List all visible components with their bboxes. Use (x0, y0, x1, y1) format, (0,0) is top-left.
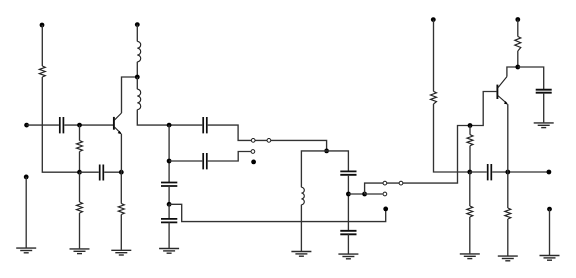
node B rail-left dot (77, 170, 82, 175)
connector J2 pin (251, 150, 255, 154)
resistor R1 (39, 66, 45, 77)
wire R3 to ground (79, 213, 81, 248)
wire C1 to Q1 base (64, 124, 113, 126)
wire VCC3 to R5 (433, 20, 435, 92)
wire R6 to node K (469, 146, 471, 172)
capacitor C9 (536, 90, 552, 93)
node output port terminal dot (547, 170, 552, 175)
ground under L3 (291, 252, 311, 257)
wire node N to C9 (518, 67, 544, 89)
wire node K to R7 (469, 172, 471, 206)
capacitor C2 (100, 165, 104, 181)
connector J1 pin 1 (251, 139, 255, 143)
wire L1 to tap node (136, 62, 138, 77)
wire R7 to ground (469, 217, 471, 253)
wire node M to R9 (507, 172, 509, 208)
node A base node dot (77, 123, 82, 128)
wire R1 down to bias rail then right (42, 77, 79, 172)
node I dot (346, 192, 351, 197)
node input ground terminal (24, 175, 29, 180)
resistor R4 (118, 204, 124, 215)
inductor L2 (137, 89, 140, 109)
wire node I to node J (348, 193, 364, 195)
resistor R9 (505, 208, 511, 219)
node D inductor tap dot (135, 75, 140, 80)
wire C8 to ground (347, 234, 349, 253)
wire node H right to C7 (327, 151, 349, 171)
node VCC3 top supply dot (431, 17, 436, 22)
wire node C down to R4 (120, 172, 122, 203)
capacitor C5 (161, 183, 177, 187)
wire Q2 collector to node N (507, 67, 518, 77)
wire VCC1 to R1 (41, 25, 43, 66)
node C emitter node dot (119, 170, 124, 175)
ground output port (540, 256, 560, 261)
wire C9 to ground (543, 93, 545, 123)
wire tap to L2 (136, 77, 138, 89)
wire node F to C4 (169, 160, 202, 162)
transistor Q1 (114, 113, 122, 134)
wire C3 right then down to jack row (208, 125, 252, 140)
resistor R7 (467, 206, 473, 217)
connector J4 pin (383, 192, 387, 196)
ground under R9 (498, 256, 518, 261)
node output ground terminal dot (547, 207, 552, 212)
capacitor C10 (488, 164, 492, 180)
resistor R3 (77, 202, 83, 213)
capacitor C1 (60, 117, 64, 133)
node VCC2 top supply dot (135, 22, 140, 27)
wire through connector pair J1 (251, 140, 326, 151)
wire node H left to L3 (301, 151, 326, 187)
wire Q1 collector up to inductor tap (122, 77, 138, 113)
wire R5 down then right to node K (434, 104, 470, 172)
wire C2 to emitter node (104, 171, 121, 173)
transistor Q2 (497, 77, 508, 105)
connector J1 pin 2 (267, 139, 271, 143)
ground under R3 (70, 249, 90, 254)
wire C5 to node G (168, 186, 170, 204)
node N collector node dot (515, 65, 520, 70)
wire C6 to ground (168, 222, 170, 248)
ground input port (16, 248, 36, 253)
node F divider top dot (167, 159, 172, 164)
node VCC4 top supply dot (515, 17, 520, 22)
node J dot (362, 192, 367, 197)
wire node J to J4 pin (365, 193, 383, 195)
node E dot (167, 123, 172, 128)
wire node J up through connector J3 to Q2 base (365, 92, 497, 195)
wire node L to R6 (469, 126, 471, 135)
resistor R2 (77, 141, 83, 152)
wire L2 down then right to node E (137, 110, 202, 126)
node G divider tap dot (167, 202, 172, 207)
wire rail node B to C2 (80, 171, 99, 173)
node H matching input dot (324, 149, 329, 154)
inductor L1 (137, 41, 140, 61)
capacitor C8 (340, 231, 356, 235)
wire input to C1 (27, 124, 59, 126)
node M emitter output dot (505, 170, 510, 175)
capacitor C3 (203, 117, 207, 133)
connector J3 pin 1 (383, 181, 387, 185)
ground under R4 (111, 250, 131, 255)
wire Q2 emitter to node M (507, 104, 509, 172)
wire C4 jog up to J2 (208, 152, 251, 162)
wire C7 to C8 through node I (347, 175, 349, 231)
ground under R7 (460, 254, 480, 259)
node VCC1 top supply dot (40, 23, 45, 28)
wire output ground stub (549, 209, 551, 255)
wire C10 to output node M (492, 171, 549, 173)
wire R2 to rail (79, 152, 81, 173)
capacitor C7 (340, 171, 356, 174)
wire R9 to ground (507, 219, 509, 256)
resistor R6 (467, 135, 473, 146)
wire L3 to ground (300, 205, 302, 251)
capacitor C6 (161, 219, 177, 223)
wire node A down to R2 (79, 125, 81, 140)
wire node K to C10 (470, 171, 487, 173)
wire R4 to ground (120, 215, 122, 250)
node TP1 marker dot (251, 160, 256, 165)
inductor L3 (301, 187, 304, 204)
ground under C8 (338, 254, 358, 259)
wire VCC4 to R8 (517, 20, 519, 37)
node L bias junction dot (468, 123, 473, 128)
wire R8 to node N (517, 51, 519, 67)
resistor R5 (431, 91, 437, 104)
node TP2 feedback end dot (383, 207, 388, 212)
node K emitter network dot (467, 170, 472, 175)
wire feedback tap from node G (169, 204, 386, 221)
wire node G down to C6 (168, 204, 170, 219)
wire node E down capacitive divider (168, 125, 170, 182)
wire Q1 emitter down to node C (120, 134, 122, 172)
ground under C9 (534, 123, 554, 128)
wire input ground stub (25, 177, 27, 248)
ground under C6 (159, 249, 179, 254)
wire node B down to R3 (79, 172, 81, 202)
capacitor C4 (203, 153, 207, 169)
connector J3 pin 2 (399, 181, 403, 185)
node input port terminal (24, 123, 29, 128)
resistor R8 (515, 37, 521, 52)
wire VCC2 to L1 (136, 25, 138, 42)
